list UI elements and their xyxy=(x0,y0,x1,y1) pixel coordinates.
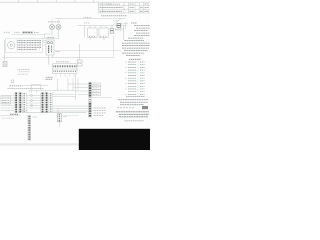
connector P4 xyxy=(57,114,61,122)
redaction black box xyxy=(79,129,150,150)
parts list table xyxy=(128,62,137,94)
meter M1 label xyxy=(18,70,31,75)
wire below P4 xyxy=(58,122,60,128)
wire lamp DS2 top lead xyxy=(58,19,60,25)
motor B1 xyxy=(8,42,15,49)
connector P1 shell xyxy=(14,93,26,114)
parts list item numbers xyxy=(125,62,127,94)
terminal board TB1 text grid xyxy=(18,40,42,49)
relay K1 xyxy=(88,26,98,40)
connector P2 shell xyxy=(41,93,53,114)
wire riser b xyxy=(67,79,69,92)
wire stub lower left xyxy=(0,115,21,117)
wire dropping at right of relays xyxy=(123,26,125,40)
stamp blob xyxy=(142,106,148,109)
connector J2 label xyxy=(56,61,69,63)
cable tag box xyxy=(1,96,11,104)
connector P2 pin column C xyxy=(50,93,52,112)
capacitor C1 xyxy=(110,26,113,34)
parts list column divider xyxy=(137,58,139,97)
wire from lamp branch to right column xyxy=(55,50,122,52)
wire J3 out right xyxy=(92,97,112,99)
panel label xyxy=(14,31,20,33)
destination label block xyxy=(46,77,54,79)
connector P1 pin column A xyxy=(15,93,17,114)
J3 pin name rows xyxy=(94,108,107,116)
parts list header xyxy=(129,58,141,60)
connector P2 pin column B xyxy=(46,93,48,114)
sheet top border line xyxy=(0,0,150,2)
indicator lamp DS2 xyxy=(56,25,61,30)
wire vertical riser x75 xyxy=(75,74,77,100)
wire stub J2 pin e xyxy=(73,74,75,78)
revision table row 0 text xyxy=(100,3,150,5)
notes paragraph 2 xyxy=(118,100,148,105)
wire drop to P4 xyxy=(57,108,59,114)
sheet bottom border line 2 xyxy=(0,144,79,146)
wire relay left drop xyxy=(84,26,86,38)
relay coil label xyxy=(84,22,90,24)
transformer T1 xyxy=(46,40,54,55)
wire harness left group xyxy=(1,96,15,111)
wire pin feed rail xyxy=(30,84,77,92)
wire lamp feed xyxy=(43,38,59,40)
notes paragraph 3 xyxy=(116,112,149,117)
wire riser d xyxy=(77,79,79,92)
indicator lamp DS1 xyxy=(50,25,55,30)
wire signal rule xyxy=(22,84,49,86)
lamp labels xyxy=(48,21,60,23)
wire riser a xyxy=(57,79,59,91)
revision table header text xyxy=(107,3,120,5)
wire riser c xyxy=(72,79,74,92)
wire T1 secondary lead 1 xyxy=(48,55,50,65)
connector P2 pin column A xyxy=(42,93,44,114)
wire lamp DS1 top lead xyxy=(51,19,53,25)
connector J3 pin strip lower xyxy=(89,103,91,117)
connector P1 bottom tag xyxy=(10,113,18,115)
terminal board TB1 dividers xyxy=(17,39,40,51)
wire rising from bus to top wire xyxy=(113,19,122,26)
connector J3 pin strip middle xyxy=(89,97,91,104)
wire module to transformer 1 xyxy=(43,40,47,42)
fuse F1 xyxy=(3,62,7,67)
terminal label box 2 text xyxy=(93,87,99,89)
wire stub J2 pin a xyxy=(55,74,57,78)
reference squiggle xyxy=(117,107,135,109)
connector P1 label row xyxy=(8,88,45,90)
terminal label box 1 xyxy=(92,83,101,86)
wire group P2 to J3 xyxy=(53,94,89,111)
node label left of relay bus xyxy=(84,17,92,19)
wire relay bus xyxy=(77,25,113,27)
terminal label box 2 xyxy=(92,86,101,89)
wire stub J2 pin d xyxy=(69,74,71,78)
inset detail circuit xyxy=(113,21,128,29)
revision table xyxy=(99,2,151,13)
notes list upper xyxy=(134,26,150,36)
connector P3 pin strip xyxy=(28,116,30,141)
thermostat S2 xyxy=(77,60,82,66)
relay K2 xyxy=(99,26,108,40)
assembly title underline xyxy=(12,34,45,36)
wire right of P4 xyxy=(62,115,79,117)
assembly title text xyxy=(23,31,33,33)
P3 side label xyxy=(33,116,38,118)
terminal label box 4 xyxy=(92,93,101,96)
wire main lower bus xyxy=(2,57,114,59)
switch S1 label xyxy=(4,31,10,33)
sheet bottom border line xyxy=(0,143,79,145)
wire left feed xyxy=(4,40,6,62)
terminal label box 3 text xyxy=(93,90,99,92)
wire top distribution xyxy=(55,18,126,20)
terminal label box 1 text xyxy=(93,84,99,86)
revision table row 1 text xyxy=(100,7,150,9)
chassis bus label xyxy=(21,110,28,112)
connector J3 pin strip upper xyxy=(89,83,91,97)
connector J3 shell xyxy=(88,83,91,118)
note under revision table xyxy=(101,15,127,17)
wire vertical at x80 xyxy=(79,44,81,60)
connector P1 pin column C xyxy=(23,93,25,112)
terminal label box 3 xyxy=(92,90,101,93)
wire harness middle group xyxy=(26,96,40,109)
wire chassis bus xyxy=(22,112,86,114)
connector J2 strip xyxy=(53,64,78,74)
control module A1 outline xyxy=(6,39,43,53)
connector P1 pin column B xyxy=(19,93,21,114)
parts list last row xyxy=(126,96,145,98)
wire vertical right drop xyxy=(113,36,115,58)
P4 label xyxy=(64,116,68,118)
signal name text xyxy=(10,85,23,87)
wire lamp DS2 lead xyxy=(58,30,60,39)
parts list value column xyxy=(140,62,145,94)
notes list heading xyxy=(131,22,137,24)
wire fan into J3 xyxy=(68,84,89,95)
lower left note xyxy=(2,117,14,119)
footnote text xyxy=(125,120,145,122)
wire T1 secondary lead 2 xyxy=(52,55,54,58)
capacitor C1 value label xyxy=(116,29,122,31)
notes list lower xyxy=(122,38,150,56)
T1 side note xyxy=(56,51,61,53)
wire module to transformer 2 xyxy=(43,42,47,44)
wire stub J2 pin b xyxy=(60,74,62,78)
wire stub J2 pin c xyxy=(64,74,66,78)
terminal label box 4 text xyxy=(93,93,99,95)
wire lamp DS1 lead xyxy=(45,30,53,39)
meter M1 xyxy=(11,80,14,83)
wire module to transformer 3 xyxy=(43,44,47,46)
transformer T1 label xyxy=(47,37,55,39)
revision table row 2 text xyxy=(100,10,150,12)
junction dot row circles xyxy=(31,95,33,107)
connector P3 shell xyxy=(28,116,31,141)
